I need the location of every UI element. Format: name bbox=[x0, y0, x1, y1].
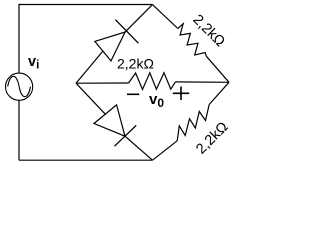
diode D1 bbox=[95, 20, 139, 61]
wire bottom bbox=[19, 159, 153, 161]
svg-text:2,2kΩ: 2,2kΩ bbox=[193, 119, 231, 157]
resistor R1 bbox=[178, 24, 207, 57]
resistor R2 bbox=[129, 73, 176, 90]
label plus bbox=[173, 87, 189, 101]
wire middle right bbox=[175, 81, 229, 83]
wire top bbox=[19, 4, 153, 6]
wire R3 top lead bbox=[209, 82, 229, 104]
wire left lower bbox=[18, 101, 20, 161]
wire middle left bbox=[76, 82, 129, 84]
svg-text:v0: v0 bbox=[149, 91, 164, 110]
wire D2 anode lead bbox=[76, 83, 105, 114]
svg-text:2,2kΩ: 2,2kΩ bbox=[189, 12, 227, 50]
wire D2 cathode lead bbox=[125, 136, 153, 160]
svg-text:vi: vi bbox=[28, 54, 39, 72]
wire R1 bottom lead bbox=[206, 56, 229, 82]
wire D1 cathode lead bbox=[125, 5, 152, 32]
wire R3 bottom lead bbox=[153, 141, 178, 160]
diode D2 bbox=[94, 105, 136, 146]
wire D1 anode lead bbox=[76, 51, 103, 83]
svg-text:2,2kΩ: 2,2kΩ bbox=[117, 56, 154, 72]
ac source Vi bbox=[6, 73, 33, 100]
resistor R3 bbox=[177, 105, 209, 141]
wire R1 top lead bbox=[153, 5, 178, 29]
wire left upper bbox=[18, 4, 20, 74]
label minus bbox=[127, 93, 139, 95]
